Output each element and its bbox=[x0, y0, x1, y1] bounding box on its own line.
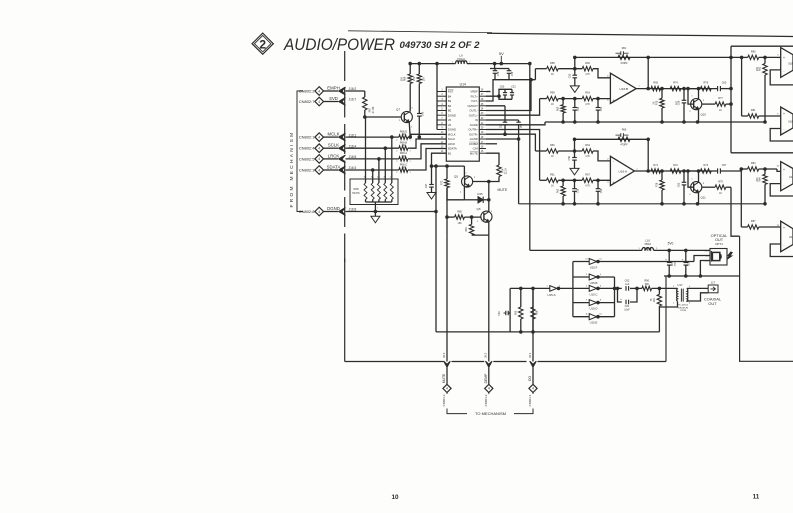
diode D25 bbox=[464, 192, 488, 203]
transistor Q6 bbox=[476, 207, 492, 229]
svg-text:R72: R72 bbox=[673, 164, 678, 167]
svg-text:U18: U18 bbox=[789, 235, 793, 239]
svg-text:IN: IN bbox=[475, 118, 478, 122]
svg-text:C58: C58 bbox=[577, 188, 580, 193]
svg-text:2: 2 bbox=[460, 192, 462, 194]
svg-text:R67: R67 bbox=[368, 107, 372, 112]
svg-text:U15:C: U15:C bbox=[590, 292, 598, 296]
wire DO drop to CN801:1 bbox=[532, 288, 534, 361]
wire MCLK row bbox=[346, 136, 399, 138]
wire Q5 collector bbox=[463, 166, 465, 176]
wire R80 to Q6 base bbox=[464, 216, 481, 218]
wire to U16:A non-inverting input bbox=[593, 179, 610, 181]
wire AGND row to analog bus bbox=[486, 122, 545, 125]
resistor R66:D 390 bbox=[396, 129, 411, 141]
svg-text:U15:E: U15:E bbox=[590, 321, 598, 325]
svg-text:DGND: DGND bbox=[448, 114, 456, 118]
wire SCLK to U14 pin 11 bbox=[408, 139, 446, 148]
op-amp U18:A bbox=[777, 48, 793, 78]
wire R69 to Q7 collector bbox=[409, 84, 411, 112]
resistor R62a bbox=[557, 180, 566, 204]
svg-text:4: 4 bbox=[318, 157, 320, 161]
svg-text:2: 2 bbox=[399, 120, 401, 122]
svg-text:U15:A: U15:A bbox=[547, 293, 555, 297]
svg-text:9: 9 bbox=[586, 300, 588, 302]
title text AUDIO/POWER 049730 SH 2 OF 2 bbox=[283, 35, 479, 54]
svg-text:C65: C65 bbox=[672, 261, 674, 266]
svg-text:AGND: AGND bbox=[470, 137, 478, 141]
connector CN802:2 signal EMPH bbox=[299, 86, 357, 96]
svg-text:C50: C50 bbox=[500, 86, 505, 89]
svg-text:C53: C53 bbox=[568, 73, 571, 78]
wire CMOUT row bbox=[486, 105, 505, 107]
svg-text:U18: U18 bbox=[788, 120, 793, 124]
wire ground bus down to sheet edge bbox=[740, 236, 793, 361]
wire U18:D feedback bbox=[770, 244, 793, 257]
wire Q11 collector bbox=[698, 171, 700, 182]
connector CN801:1 signal DO bbox=[528, 352, 537, 406]
wire R74 to Q5/Q6 mute node bbox=[472, 177, 499, 182]
resistor R67 47.9K bbox=[363, 91, 375, 117]
wire MUTE pin to R74 bbox=[486, 153, 499, 165]
resistor R73a bbox=[700, 164, 711, 173]
svg-text:R81: R81 bbox=[465, 227, 468, 232]
svg-text:+: + bbox=[783, 112, 785, 116]
svg-text:C56: C56 bbox=[568, 155, 571, 160]
svg-text:1: 1 bbox=[411, 127, 413, 129]
resistor R65 bbox=[651, 82, 661, 91]
svg-text:10uF: 10uF bbox=[624, 308, 630, 311]
optical output module OPT1 bbox=[704, 233, 732, 265]
wire MUTE drop to CN801:3 bbox=[446, 235, 448, 361]
inductor L10 FB04 bbox=[638, 239, 658, 251]
capacitor C57a bbox=[596, 180, 603, 204]
svg-text:DEMP: DEMP bbox=[484, 373, 488, 384]
svg-text:R60: R60 bbox=[557, 106, 560, 111]
svg-text:C54: C54 bbox=[521, 123, 523, 128]
svg-text:Q7: Q7 bbox=[396, 108, 400, 112]
svg-text:C54: C54 bbox=[600, 106, 603, 111]
svg-text:DGND: DGND bbox=[327, 206, 340, 211]
svg-text:12: 12 bbox=[599, 259, 602, 261]
svg-text:B1: B1 bbox=[448, 151, 452, 155]
transistor Q7 bbox=[396, 108, 413, 129]
connector CN802:8 signal DGND bbox=[299, 206, 357, 216]
svg-text:20K: 20K bbox=[756, 177, 759, 182]
svg-text:2: 2 bbox=[689, 111, 691, 113]
svg-text:R82: R82 bbox=[759, 66, 762, 71]
wire VREF stub bbox=[486, 91, 491, 93]
svg-text:4.7K: 4.7K bbox=[585, 186, 590, 188]
wire feedback to input node bbox=[574, 57, 576, 68]
wire U16:B feedback/top line bbox=[575, 56, 742, 58]
svg-text:R66:D: R66:D bbox=[400, 129, 407, 133]
svg-text:CN802:1: CN802:1 bbox=[299, 135, 316, 140]
ground below C47 bbox=[427, 193, 436, 200]
wire SDATA to U14 pin 13 bbox=[408, 149, 446, 171]
wire mute vertical to Q6 bbox=[488, 182, 490, 212]
svg-text:5: 5 bbox=[586, 285, 588, 287]
capacitor C57b bbox=[596, 99, 603, 122]
svg-text:150: 150 bbox=[458, 222, 463, 225]
svg-text:3: 3 bbox=[607, 182, 609, 184]
capacitor C59 1uF bbox=[675, 87, 687, 122]
wire Q5 emitter to D25 line bbox=[463, 187, 465, 200]
svg-text:V0: V0 bbox=[448, 123, 452, 127]
wire U14 left pin bus bbox=[436, 64, 438, 130]
svg-text:+: + bbox=[682, 258, 684, 262]
svg-text:R85: R85 bbox=[514, 310, 517, 315]
svg-text:4: 4 bbox=[689, 286, 691, 288]
svg-text:R90: R90 bbox=[644, 279, 649, 283]
resistor R79 bbox=[702, 180, 731, 195]
connector CN801:3 signal MUTE bbox=[442, 352, 451, 406]
wire SDATA row bbox=[346, 169, 399, 171]
svg-text:U18: U18 bbox=[789, 175, 793, 179]
capacitor C48 bbox=[490, 64, 509, 80]
svg-text:C62: C62 bbox=[625, 279, 630, 283]
svg-text:R81: R81 bbox=[751, 109, 756, 112]
svg-text:11: 11 bbox=[585, 314, 588, 316]
svg-text:J8:1: J8:1 bbox=[528, 352, 532, 358]
svg-text:1: 1 bbox=[465, 173, 467, 175]
svg-text:OUTR-: OUTR- bbox=[469, 132, 478, 136]
wire down to R81b bbox=[741, 57, 743, 116]
svg-text:MCLK: MCLK bbox=[328, 132, 340, 137]
svg-text:R69: R69 bbox=[404, 76, 407, 81]
svg-text:PC-05812: PC-05812 bbox=[678, 305, 689, 307]
wire FILT- row to decoupling caps bbox=[486, 80, 509, 101]
svg-text:1: 1 bbox=[546, 286, 548, 288]
svg-text:CN802:7: CN802:7 bbox=[299, 99, 316, 104]
svg-text:1: 1 bbox=[691, 96, 693, 98]
wire DO node bus to U15:A bbox=[510, 287, 550, 289]
svg-text:D25: D25 bbox=[477, 192, 483, 196]
svg-text:C55: C55 bbox=[577, 106, 580, 111]
bracket TO MECHANISM bbox=[447, 409, 533, 417]
svg-text:C47: C47 bbox=[425, 183, 428, 188]
svg-text:3: 3 bbox=[689, 303, 691, 305]
inverter U15:F bbox=[573, 259, 603, 270]
transistor Q11 bbox=[689, 179, 706, 200]
wire OUTL- row to U16:B inverting path bbox=[486, 80, 531, 111]
wire SCLK row bbox=[346, 147, 399, 149]
svg-text:DGND: DGND bbox=[448, 128, 456, 132]
wire ground bus corner to bottom bus bbox=[665, 276, 667, 362]
svg-text:Q11: Q11 bbox=[701, 196, 707, 200]
svg-text:3: 3 bbox=[777, 54, 779, 56]
svg-text:4: 4 bbox=[532, 387, 534, 391]
svg-text:4.7K: 4.7K bbox=[585, 156, 590, 158]
svg-text:RST: RST bbox=[448, 90, 454, 94]
wire OUTR- row to U16:A path bbox=[486, 130, 540, 181]
svg-text:MUTE: MUTE bbox=[470, 151, 478, 155]
wire DEMP drop to CN801:2 bbox=[488, 235, 490, 361]
svg-text:U16:A: U16:A bbox=[619, 169, 629, 173]
svg-text:R62: R62 bbox=[557, 188, 560, 193]
svg-text:OUTL-: OUTL- bbox=[469, 109, 477, 113]
inductor L9 100uH bbox=[452, 54, 471, 65]
svg-text:2: 2 bbox=[656, 248, 658, 250]
op-amp U18:B bbox=[777, 107, 793, 135]
svg-text:LRCK: LRCK bbox=[328, 153, 340, 158]
wire U15:D output bbox=[597, 302, 615, 304]
svg-text:15920E-R1: 15920E-R1 bbox=[677, 307, 689, 309]
capacitor C56 bbox=[501, 106, 508, 136]
svg-text:2: 2 bbox=[673, 286, 675, 288]
svg-text:C64: C64 bbox=[498, 311, 501, 316]
capacitor C53a to ground bbox=[568, 151, 577, 168]
svg-text:SCLK: SCLK bbox=[448, 137, 455, 141]
inverter U15:E bbox=[573, 314, 603, 325]
wire U14 pin14 B1 to C47 bbox=[432, 153, 447, 166]
svg-text:OUTL+: OUTL+ bbox=[469, 114, 478, 118]
wire OUTR+ row to U16:A path bbox=[486, 134, 535, 151]
svg-text:3: 3 bbox=[586, 274, 588, 276]
svg-text:2: 2 bbox=[396, 139, 398, 141]
svg-text:1: 1 bbox=[691, 179, 693, 181]
wire Q5 collector feed bbox=[432, 165, 465, 167]
svg-text:U14: U14 bbox=[460, 83, 466, 87]
wire: top interconnect line to next sheet bbox=[348, 31, 492, 33]
wire U16:A feedback line bbox=[575, 138, 649, 140]
svg-text:R68: R68 bbox=[354, 187, 359, 191]
svg-text:4.7K: 4.7K bbox=[585, 74, 590, 76]
svg-text:R60: R60 bbox=[550, 144, 555, 147]
svg-text:C51: C51 bbox=[511, 86, 516, 89]
svg-text:VCC: VCC bbox=[704, 250, 709, 252]
transistor Q5 bbox=[454, 173, 476, 194]
svg-text:-: - bbox=[613, 76, 614, 80]
resistor R80 150 bbox=[455, 210, 465, 225]
svg-text:3: 3 bbox=[474, 177, 476, 179]
inverter U15:C bbox=[573, 285, 602, 296]
wire to transformer bbox=[652, 287, 673, 289]
IC U14 digital filter / DAC bbox=[437, 83, 486, 162]
svg-text:3: 3 bbox=[491, 211, 493, 213]
svg-text:C49: C49 bbox=[511, 71, 514, 76]
svg-text:LRCK: LRCK bbox=[448, 142, 456, 146]
wire lower ground bus bbox=[436, 331, 659, 333]
svg-text:7: 7 bbox=[638, 86, 640, 88]
wire DOBM row stub bbox=[486, 143, 497, 145]
resistor R91 75 bbox=[650, 288, 662, 306]
resistor R85 bbox=[514, 287, 523, 333]
wire U15:F output to optical bbox=[597, 256, 710, 263]
svg-text:1K: 1K bbox=[719, 110, 722, 112]
capacitor C49 bbox=[507, 69, 514, 80]
transistor Q10 bbox=[689, 96, 706, 117]
wire pack pin5 to SDATA bbox=[372, 170, 374, 179]
svg-text:10: 10 bbox=[391, 494, 399, 501]
resistor R60 2K bbox=[557, 99, 566, 122]
wire into U18:A + bbox=[777, 56, 781, 58]
svg-text:C67: C67 bbox=[722, 164, 727, 167]
svg-text:GND: GND bbox=[704, 260, 709, 262]
svg-text:049730 SH 2 OF 2: 049730 SH 2 OF 2 bbox=[400, 40, 480, 50]
svg-text:10: 10 bbox=[599, 314, 602, 316]
label COAXIAL OUT bbox=[704, 297, 722, 307]
svg-text:AGND: AGND bbox=[470, 123, 478, 127]
bracket FROM MECHANISM bbox=[289, 91, 303, 212]
svg-text:DOBM: DOBM bbox=[469, 142, 478, 146]
svg-text:1K: 1K bbox=[551, 186, 554, 188]
svg-text:+: + bbox=[620, 297, 622, 301]
resistor R74 22.1K bbox=[497, 165, 508, 177]
wire U18:A feedback bbox=[770, 70, 793, 85]
svg-text:R66:C: R66:C bbox=[400, 162, 407, 166]
resistor R58 1K bbox=[535, 62, 558, 76]
inverter bank output vertical bbox=[614, 277, 616, 317]
wire R61a node bbox=[558, 179, 582, 181]
svg-text:VREF: VREF bbox=[470, 90, 478, 94]
resistor R66:B 390 bbox=[396, 141, 411, 153]
svg-text:B4: B4 bbox=[448, 95, 452, 99]
wire R72 bottom to Q5 emitter bbox=[447, 188, 464, 200]
svg-text:MCLK: MCLK bbox=[448, 132, 456, 136]
svg-text:MUTE: MUTE bbox=[442, 373, 446, 383]
svg-text:470PF: 470PF bbox=[620, 144, 628, 147]
svg-text:CN802:2: CN802:2 bbox=[299, 89, 316, 94]
svg-text:SCLK: SCLK bbox=[328, 143, 339, 148]
svg-text:J8:3: J8:3 bbox=[442, 352, 446, 358]
op-amp U18:D bbox=[777, 221, 793, 252]
svg-text:47.9K: 47.9K bbox=[371, 106, 375, 113]
svg-text:J16:7: J16:7 bbox=[349, 98, 357, 102]
svg-text:FROM MECHANISM: FROM MECHANISM bbox=[289, 131, 295, 208]
svg-text:R62: R62 bbox=[585, 62, 590, 65]
svg-text:R75: R75 bbox=[655, 100, 658, 105]
wire EMPH row to R67 bbox=[346, 90, 365, 92]
svg-text:Q10: Q10 bbox=[701, 113, 707, 117]
wire U18:B feedback bbox=[770, 129, 793, 142]
transformer U17 PC-05812 bbox=[673, 283, 691, 312]
svg-text:CN802:5: CN802:5 bbox=[299, 156, 316, 161]
svg-text:R74: R74 bbox=[673, 82, 678, 85]
ground below C53a bbox=[570, 168, 579, 175]
svg-text:U15:B: U15:B bbox=[590, 281, 598, 285]
svg-text:R87: R87 bbox=[751, 220, 756, 223]
svg-text:11: 11 bbox=[753, 494, 760, 501]
svg-text:100uH: 100uH bbox=[457, 57, 465, 61]
svg-text:390: 390 bbox=[645, 283, 650, 286]
svg-text:OPT1: OPT1 bbox=[715, 242, 723, 246]
svg-text:R72: R72 bbox=[441, 180, 444, 185]
svg-text:3: 3 bbox=[703, 100, 705, 102]
resistor R64a 4.7K bbox=[582, 144, 593, 158]
resistor R65a bbox=[651, 164, 661, 173]
wire to sheet edge mid bbox=[731, 152, 793, 154]
connector J17 coaxial bbox=[708, 281, 718, 293]
svg-text:20K: 20K bbox=[756, 66, 759, 71]
svg-text:2K: 2K bbox=[653, 101, 656, 104]
svg-text:R78: R78 bbox=[655, 182, 658, 187]
svg-text:C59: C59 bbox=[600, 188, 603, 193]
resistor R81b bbox=[742, 109, 781, 118]
svg-text:+: + bbox=[783, 56, 785, 60]
wire transformer secondary to J17 bbox=[687, 287, 708, 289]
capacitor C60 bbox=[681, 82, 731, 92]
svg-text:4: 4 bbox=[600, 274, 602, 276]
svg-text:5: 5 bbox=[777, 114, 779, 116]
svg-text:OUTR+: OUTR+ bbox=[468, 128, 478, 132]
resistor R81 bbox=[465, 217, 474, 235]
svg-text:CN801:3: CN801:3 bbox=[442, 394, 446, 406]
capacitor C45 bbox=[417, 84, 425, 139]
capacitor C65 10uF bbox=[665, 250, 676, 276]
capacitor C47 bbox=[425, 166, 434, 192]
capacitor C62 bbox=[615, 279, 638, 291]
wire down to R81c bbox=[740, 169, 742, 227]
svg-text:U17: U17 bbox=[677, 283, 683, 287]
wire 5V rail down to digital output section bbox=[529, 64, 531, 251]
resistor R61a bbox=[540, 173, 559, 187]
resistor R72 bbox=[441, 165, 450, 188]
dashed page-boundary line bbox=[344, 51, 346, 262]
svg-text:1: 1 bbox=[409, 172, 411, 174]
svg-text:1: 1 bbox=[638, 248, 640, 250]
svg-text:R61: R61 bbox=[622, 47, 627, 50]
wire R60a node bbox=[558, 150, 582, 152]
connector CN802:3 signal SDATA bbox=[299, 165, 357, 175]
wire secondary return bbox=[687, 293, 708, 302]
wire Q10 base bbox=[688, 89, 693, 105]
svg-text:Q6: Q6 bbox=[476, 207, 480, 211]
svg-text:SDATA: SDATA bbox=[448, 147, 457, 151]
svg-text:FILT-: FILT- bbox=[471, 99, 477, 103]
op-amp U16:B bbox=[607, 73, 640, 103]
svg-text:R80: R80 bbox=[751, 51, 756, 54]
svg-text:U15:F: U15:F bbox=[590, 266, 598, 270]
wire pack pin4 to LRCK bbox=[378, 159, 380, 179]
resistor R63 4.7K bbox=[582, 92, 593, 106]
svg-text:V0: V0 bbox=[448, 118, 452, 122]
wire R79 to lower-right block bbox=[731, 187, 740, 236]
svg-text:1: 1 bbox=[409, 139, 411, 141]
op-amp U16:A bbox=[607, 156, 638, 185]
svg-text:AUDIO/POWER: AUDIO/POWER bbox=[283, 35, 395, 54]
capacitor C59a bbox=[678, 170, 687, 204]
svg-text:1: 1 bbox=[636, 168, 638, 170]
svg-text:EMPH: EMPH bbox=[327, 86, 339, 91]
svg-text:-: - bbox=[783, 243, 784, 247]
wire U15:B output bbox=[597, 276, 615, 278]
wire U16:A output bbox=[634, 170, 700, 172]
svg-text:R59: R59 bbox=[550, 92, 555, 95]
optical ground bus bbox=[664, 275, 740, 277]
wire Q11 base bbox=[688, 171, 693, 187]
wire U16:B output bbox=[636, 88, 700, 90]
svg-text:1: 1 bbox=[409, 150, 411, 152]
resistor R86 bbox=[531, 287, 539, 333]
svg-text:U16:B: U16:B bbox=[620, 87, 629, 91]
svg-text:R91: R91 bbox=[653, 297, 656, 302]
svg-text:CN801:1: CN801:1 bbox=[528, 394, 532, 406]
svg-text:R83: R83 bbox=[751, 162, 756, 165]
wire U15:E output bbox=[597, 316, 615, 318]
resistor R70 10K bbox=[413, 62, 426, 83]
connector CN802:1 signal MCLK bbox=[299, 132, 357, 142]
svg-text:1: 1 bbox=[409, 161, 411, 163]
wire to sheet edge upper bbox=[731, 45, 793, 47]
svg-text:SIG: SIG bbox=[705, 255, 709, 257]
svg-text:R71: R71 bbox=[653, 164, 658, 167]
svg-text:R65: R65 bbox=[653, 82, 658, 85]
svg-text:CN802:3: CN802:3 bbox=[299, 168, 316, 173]
wire R59 node bbox=[558, 98, 582, 100]
svg-text:4: 4 bbox=[488, 387, 490, 391]
capacitor C66 bbox=[682, 249, 691, 276]
